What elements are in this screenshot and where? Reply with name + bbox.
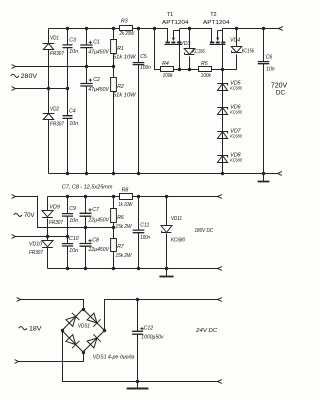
- svg-text:VD9: VD9: [50, 205, 60, 211]
- node: VD9-VD10 junction: [46, 235, 49, 238]
- node: C11 tap: [137, 195, 140, 198]
- svg-text:C1: C1: [93, 40, 100, 46]
- capacitor C6 10n: [263, 29, 265, 62]
- svg-text:VD2: VD2: [50, 107, 59, 113]
- resistor R6 15k 2W: [113, 197, 115, 209]
- svg-text:10n: 10n: [69, 218, 78, 224]
- zener diode VD11 KC680: [166, 197, 168, 226]
- svg-text:180V DC: 180V DC: [195, 228, 214, 234]
- capacitor C12 1000u50v polarized: [137, 300, 139, 332]
- node: C12 positive tap: [136, 298, 139, 301]
- node: C7-C8 junction: [84, 226, 87, 229]
- input terminal ~70V line 2: [12, 235, 16, 239]
- transistor T1 gate electrode line: [165, 44, 182, 46]
- svg-text:APT1204: APT1204: [203, 20, 230, 26]
- input terminal ~18V line 1: [17, 298, 21, 302]
- svg-text:R5: R5: [201, 61, 208, 67]
- svg-text:KC680: KC680: [230, 86, 242, 92]
- resistor R1 51k 10W: [113, 29, 115, 40]
- svg-text:24V DC: 24V DC: [195, 328, 217, 334]
- wire: top rail segment T1 to T2: [180, 29, 212, 42]
- svg-text:R8: R8: [122, 187, 129, 193]
- svg-text:2k 20W: 2k 20W: [119, 31, 135, 37]
- node: VD3 anode on rail: [188, 27, 191, 30]
- svg-text:FR307: FR307: [50, 122, 65, 128]
- input terminal ~280V line 1: [12, 65, 16, 69]
- svg-text:FR307: FR307: [49, 220, 64, 226]
- node: VD1-VD2 junction: [47, 87, 50, 90]
- input terminal ~18V line 2: [15, 360, 19, 364]
- node: C6 tap on rail: [262, 27, 265, 30]
- svg-text:C4: C4: [69, 109, 76, 115]
- svg-text:VD4: VD4: [230, 37, 240, 43]
- wire: top rail output segment (T2 to 720V terminal): [223, 28, 279, 30]
- svg-text:VD1: VD1: [50, 36, 59, 42]
- transistor T1 APT1204 channel dashes: [166, 42, 170, 44]
- output terminal 180V negative: [218, 267, 222, 271]
- svg-text:22µ450V: 22µ450V: [88, 218, 110, 224]
- svg-text:C6: C6: [266, 54, 273, 60]
- wire: AC 70V input line 2 to VD9/VD10 and C9/C10 junctions: [16, 236, 68, 238]
- svg-text:100n: 100n: [140, 235, 150, 241]
- svg-text:C9: C9: [69, 206, 76, 212]
- wire: 180V rail (VD9 top to R8): [48, 196, 120, 198]
- wire: bottom return rail of 180V section: [48, 268, 218, 270]
- junction dots on bottom rail: [66, 172, 69, 175]
- svg-text:10n: 10n: [69, 121, 78, 127]
- zener diode VD6 KC680: [218, 108, 228, 115]
- junction dots on 180V bottom rail: [66, 267, 69, 270]
- zener diode VD4 KC156: [236, 29, 238, 47]
- svg-text:T2: T2: [210, 12, 216, 18]
- svg-text:R6: R6: [117, 215, 124, 221]
- svg-text:10n: 10n: [69, 248, 78, 254]
- wire: AC 70V input line 1 jog down to C7/C8 and R6/R7 junctions: [16, 197, 114, 228]
- svg-text:1000µ50v: 1000µ50v: [141, 335, 164, 341]
- capacitor C11 100n: [138, 197, 140, 231]
- capacitor C9 10n: [67, 197, 69, 214]
- svg-text:18V: 18V: [29, 326, 42, 333]
- node: R1-R2 junction: [112, 65, 115, 68]
- diode VD9 FR307: [47, 197, 49, 211]
- wire: top rail left segment (VD1 to R3): [49, 28, 120, 30]
- svg-text:C8: C8: [92, 238, 99, 244]
- zener diode VD7 KC680: [218, 132, 228, 139]
- svg-text:KC680: KC680: [230, 134, 242, 140]
- svg-text:51k 10W: 51k 10W: [113, 92, 137, 98]
- svg-text:FR307: FR307: [29, 250, 44, 256]
- transistor T2 APT1204 channel dashes: [210, 42, 214, 44]
- output terminal 24V positive: [218, 298, 222, 302]
- svg-text:R4: R4: [162, 61, 169, 67]
- output terminal 180V positive: [218, 195, 222, 199]
- transistor T2 gate electrode line: [210, 44, 226, 46]
- wire: bottom return rail of 720V section: [49, 173, 278, 175]
- node: bridge bottom corner: [82, 351, 85, 354]
- node: VD4 anode on rail: [235, 27, 238, 30]
- junction dots: C5 and R4 taps: [137, 27, 140, 30]
- svg-text:C12: C12: [144, 326, 154, 332]
- svg-text:KC156: KC156: [192, 49, 204, 55]
- output terminal 24V negative: [218, 380, 222, 384]
- resistor R5 100k: [199, 67, 212, 72]
- wire: R4 feed from top rail: [155, 29, 161, 70]
- resistor R7 15k 2W: [113, 228, 115, 239]
- resistor R2 51k 10W: [113, 67, 115, 78]
- capacitor C8 22u450V polarized: [85, 228, 87, 244]
- zener chain VD5-VD8 KC680 wire: [222, 70, 224, 174]
- svg-text:C5: C5: [140, 54, 147, 60]
- svg-text:100k: 100k: [163, 73, 173, 79]
- resistor R3: [120, 26, 133, 31]
- svg-text:C2: C2: [93, 77, 100, 83]
- svg-text:100n: 100n: [140, 65, 151, 71]
- wire: AC input line 2 to VD1/VD2 and C3/C4 junctions: [16, 88, 68, 90]
- node: R6-R7 junction: [112, 226, 115, 229]
- capacitor C7 22u450V polarized: [85, 197, 87, 214]
- svg-text:100k: 100k: [201, 73, 211, 79]
- svg-text:15k 2W: 15k 2W: [116, 253, 133, 259]
- capacitor C5 100n: [138, 29, 140, 63]
- node: C9-C10 junction: [66, 235, 69, 238]
- bridge diode VDS1 bottom-left: [66, 334, 80, 348]
- ground symbol (180V section): [166, 269, 168, 277]
- svg-text:10n: 10n: [266, 66, 275, 72]
- wire: top rail mid segment (R3 to T1 drain): [133, 29, 168, 42]
- wire: R4 output to T1 gate / VD3 node: [174, 69, 199, 71]
- svg-text:KC680: KC680: [230, 110, 242, 116]
- svg-text:70V: 70V: [24, 212, 35, 219]
- transistor T2 substrate arrow: [217, 31, 219, 39]
- svg-text:R2: R2: [117, 84, 124, 90]
- wire: bridge positive output to 24V terminal: [105, 300, 218, 331]
- svg-text:R1: R1: [117, 46, 124, 52]
- svg-text:47µ450V: 47µ450V: [88, 87, 109, 93]
- node: VD11 tap: [165, 195, 168, 198]
- label ~280V: [11, 74, 19, 77]
- node: bridge right corner: [103, 329, 106, 332]
- svg-text:KC156: KC156: [242, 48, 254, 54]
- svg-text:APT1204: APT1204: [162, 20, 189, 26]
- node: VD3 cathode junction: [188, 68, 191, 71]
- svg-text:C7, C8 - 12,5x25mm: C7, C8 - 12,5x25mm: [62, 184, 113, 190]
- capacitor C4 10n: [67, 89, 69, 116]
- svg-text:KC680: KC680: [230, 158, 242, 164]
- svg-text:VDS1: VDS1: [78, 323, 90, 329]
- resistor R8 1k 10W: [120, 194, 133, 200]
- diode VD1 FR307: [48, 29, 50, 44]
- diode VD2 FR307: [48, 89, 50, 114]
- bridge diode VDS1 top-right: [87, 313, 101, 327]
- svg-text:DC: DC: [276, 89, 286, 96]
- svg-text:VDS1 4-ре диода: VDS1 4-ре диода: [93, 354, 135, 360]
- svg-text:C11: C11: [140, 223, 149, 229]
- node: C3-C4 junction: [66, 87, 69, 90]
- wire: T1 source drop from top rail / gate lead to R4 node: [179, 29, 181, 70]
- output terminal 720V positive: [279, 27, 283, 31]
- bridge diode VDS1 bottom-right: [87, 334, 101, 348]
- diode VD10 FR307: [47, 237, 49, 241]
- ground symbol (24V section): [137, 382, 139, 389]
- bridge rectifier VDS1 diamond wires: [62, 309, 105, 352]
- junction dots on 180V rail: [66, 195, 69, 198]
- svg-text:VD11: VD11: [171, 216, 182, 222]
- node: T2 gate / VD4 / zener chain junction: [221, 68, 224, 71]
- ground symbol (720V section): [263, 174, 265, 182]
- transistor T1 substrate-source jog wire: [174, 30, 180, 32]
- wire: bridge negative output rail: [63, 331, 218, 382]
- svg-text:10n: 10n: [69, 49, 78, 55]
- label ~18V: [19, 327, 27, 330]
- svg-text:R7: R7: [117, 244, 125, 250]
- transistor T1 substrate arrow: [173, 31, 175, 39]
- output terminal 720V negative: [278, 172, 282, 176]
- input terminal ~70V line 1: [12, 195, 16, 199]
- node: bridge top corner: [82, 308, 85, 311]
- label ~70V: [14, 213, 22, 216]
- junction dots on top rail left segment: [66, 27, 69, 30]
- wire: AC input line 1 to C1/C2 and R1/R2 junctions: [16, 66, 114, 68]
- svg-text:T1: T1: [167, 12, 173, 18]
- node: C1-C2 junction: [85, 65, 88, 68]
- svg-text:C7: C7: [92, 207, 100, 213]
- svg-text:VD3: VD3: [180, 41, 190, 47]
- capacitor C10 10n: [67, 237, 69, 244]
- svg-text:C3: C3: [69, 38, 76, 44]
- bridge diode VDS1 top-left: [66, 313, 80, 327]
- capacitor C1 47u450V polarized: [86, 29, 88, 46]
- input terminal ~280V line 2: [12, 87, 16, 91]
- svg-text:47µ450V: 47µ450V: [88, 49, 109, 55]
- svg-text:15k 2W: 15k 2W: [116, 224, 133, 230]
- wire: T2 source drop / gate lead: [222, 29, 224, 70]
- svg-text:280V: 280V: [21, 73, 38, 80]
- svg-text:51k 10W: 51k 10W: [113, 54, 137, 60]
- capacitor C3 10n: [67, 29, 69, 45]
- transistor T2 substrate-source jog wire: [218, 30, 223, 32]
- zener diode VD8 KC680: [218, 156, 228, 163]
- svg-text:R3: R3: [121, 18, 128, 24]
- capacitor C2 47u450V polarized: [86, 67, 88, 84]
- zener diode VD3 KC156: [189, 29, 191, 49]
- svg-text:1k 10W: 1k 10W: [118, 202, 133, 208]
- svg-text:KC680: KC680: [171, 237, 185, 243]
- wire: 180V rail (R8 to output terminal): [133, 196, 218, 198]
- node: bridge left corner: [61, 329, 64, 332]
- svg-text:22µ450V: 22µ450V: [88, 247, 110, 253]
- wire: R5 to T2 gate node: [212, 69, 237, 71]
- svg-text:C10: C10: [69, 236, 79, 242]
- node: T1 gate tap: [178, 68, 181, 71]
- resistor R4 100k: [161, 67, 174, 72]
- wire: AC 18V input line 1 to bridge top corner: [21, 300, 84, 310]
- wire: AC 18V input line 2 to bridge bottom corner: [19, 353, 84, 362]
- svg-text:FR307: FR307: [50, 51, 65, 57]
- zener diode VD5 KC680: [218, 84, 228, 91]
- node: C12 negative tap: [136, 380, 139, 383]
- svg-text:VD10: VD10: [29, 241, 42, 247]
